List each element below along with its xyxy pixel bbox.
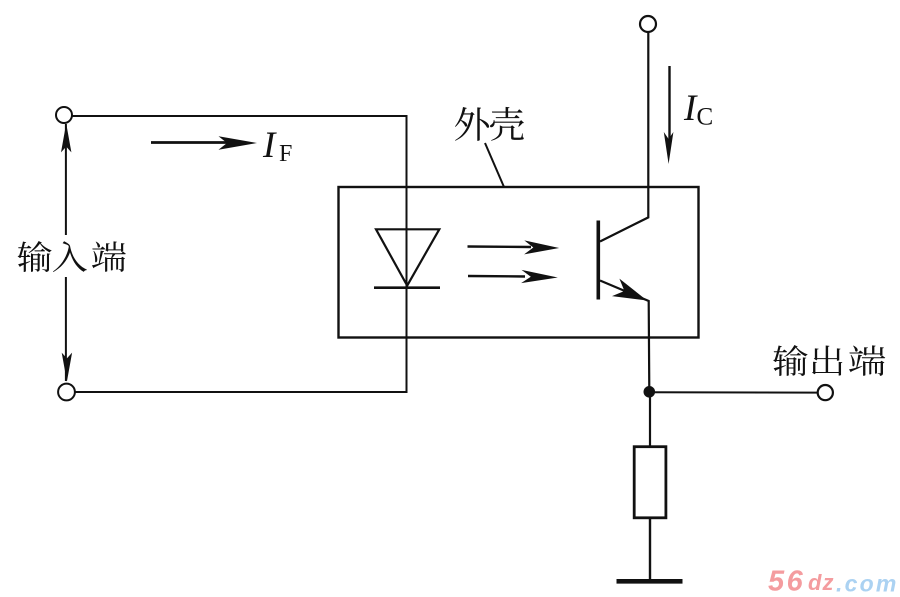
- svg-text:.com: .com: [836, 571, 898, 597]
- input dimension line upper segment: [65, 124, 67, 235]
- wire resistor to ground: [649, 518, 651, 581]
- label 外壳 (case): [455, 107, 524, 141]
- LED D1 triangle (anode): [376, 229, 439, 285]
- input dimension line lower segment: [65, 277, 67, 381]
- light arrow upper: [468, 245, 532, 248]
- wire input bottom horizontal: [75, 391, 407, 393]
- node junction emitter/output: [644, 386, 656, 398]
- ground bar: [617, 579, 683, 584]
- phototransistor Q1 emitter lead: [600, 281, 649, 393]
- svg-text:C: C: [697, 104, 714, 131]
- optocoupler case (外壳 box): [339, 187, 699, 338]
- label 输入端 (input terminal): [18, 241, 126, 272]
- leader line from 外壳 to case: [485, 143, 504, 187]
- current arrow IC: [668, 66, 670, 140]
- LED D1 cathode bar: [374, 286, 440, 289]
- wire LED anode/cathode vertical (through case): [406, 115, 408, 393]
- svg-text:I: I: [262, 125, 277, 166]
- terminal collector top (open circle): [640, 16, 656, 32]
- phototransistor Q1 emitter arrowhead: [612, 279, 647, 301]
- wire output horizontal: [649, 391, 818, 393]
- current arrow IF: [151, 141, 236, 144]
- input dimension arrowhead up: [61, 123, 71, 152]
- phototransistor Q1 collector lead: [600, 33, 648, 242]
- terminal input top (open circle): [56, 107, 72, 123]
- wire input top horizontal: [72, 115, 406, 117]
- wire junction to resistor: [649, 392, 651, 447]
- input dimension arrowhead down: [62, 353, 72, 382]
- terminal output (open circle): [818, 385, 833, 400]
- label 输出端 (output terminal): [773, 345, 885, 376]
- resistor RL body: [634, 447, 666, 518]
- svg-text:F: F: [279, 141, 292, 167]
- light arrow lower: [468, 275, 525, 278]
- svg-text:56: 56: [768, 566, 805, 597]
- terminal input bottom (open circle): [58, 384, 75, 401]
- svg-text:dz: dz: [808, 570, 834, 595]
- phototransistor Q1 base bar: [596, 221, 600, 300]
- watermark 56dz.com: [768, 566, 898, 597]
